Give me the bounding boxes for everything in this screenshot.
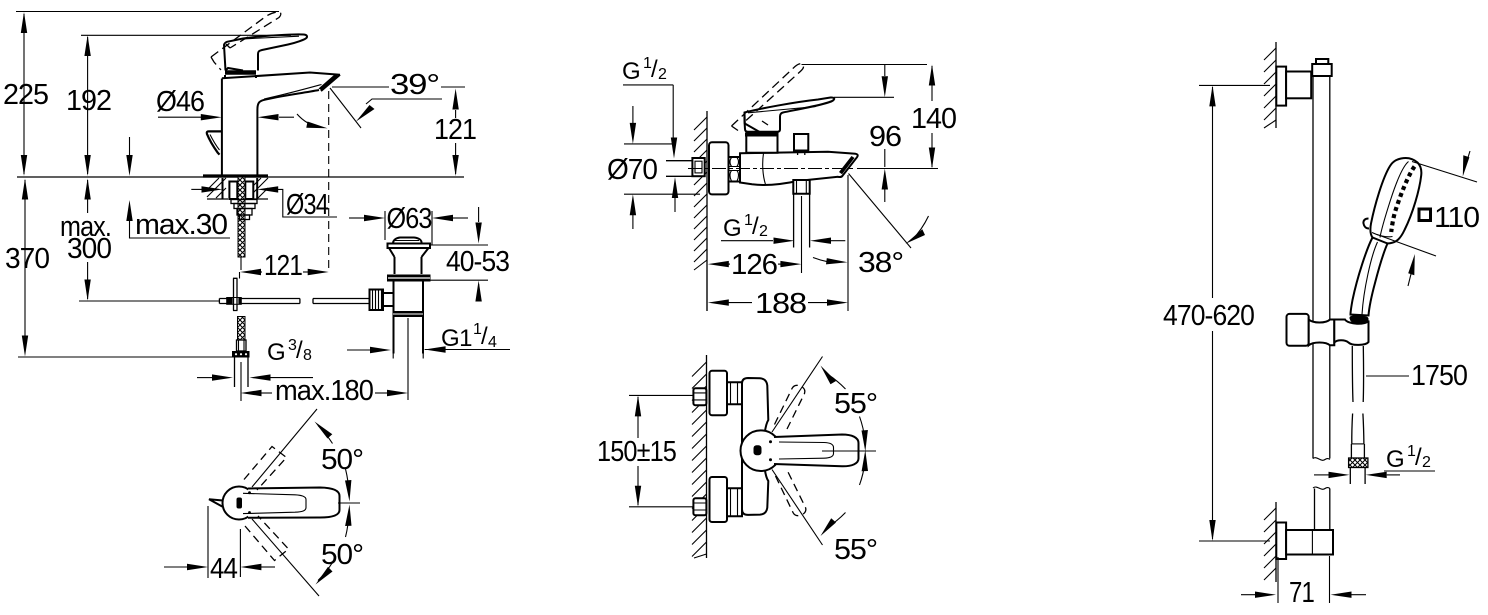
handle pivot circle front xyxy=(741,430,782,471)
handle lever middle solid xyxy=(744,97,834,131)
svg-text:G: G xyxy=(622,58,640,85)
dashed lever down front xyxy=(776,472,806,516)
svg-text:300: 300 xyxy=(67,233,111,265)
faucet spout tip slant xyxy=(321,75,340,91)
handle lever front view xyxy=(774,435,859,467)
svg-text:G: G xyxy=(1386,446,1404,473)
handle top view: dots xyxy=(248,491,251,494)
lever dots front xyxy=(769,440,772,443)
hose collar line xyxy=(1352,443,1364,445)
svg-text:G: G xyxy=(723,215,741,242)
dashed lever up front xyxy=(775,385,805,429)
svg-text:110: 110 xyxy=(1434,202,1479,234)
countertop line xyxy=(17,176,464,178)
faucet body outline xyxy=(222,79,319,177)
55 degree lower arc xyxy=(821,450,869,536)
counter hole edges xyxy=(223,178,258,199)
dimension Ø46 arrows xyxy=(158,114,294,120)
lever tip center line front xyxy=(822,450,876,452)
pipe center extension xyxy=(801,196,803,273)
svg-text:1750: 1750 xyxy=(1411,360,1467,392)
dashed raised handle middle xyxy=(732,64,804,131)
drain knob connector xyxy=(383,293,394,306)
svg-text:8: 8 xyxy=(303,347,312,364)
G3/8 thread lines xyxy=(235,358,249,388)
svg-text:/: / xyxy=(1415,444,1422,471)
mixer body side view xyxy=(740,152,858,185)
handle lever bottom left edge xyxy=(226,68,244,71)
countertop underside line segments xyxy=(207,198,268,200)
drain flange xyxy=(388,244,431,249)
G1/2 label right drawing xyxy=(1384,443,1435,473)
pop-up rod vertical xyxy=(233,278,238,310)
39 degree leader line xyxy=(332,86,465,88)
dimension 126 xyxy=(708,261,802,267)
cartridge gap thick line xyxy=(745,133,779,137)
square symbol xyxy=(1419,209,1431,221)
wall line side view xyxy=(706,111,708,311)
dimension 470-620 vertical xyxy=(1209,85,1215,541)
svg-text:2: 2 xyxy=(1422,454,1431,471)
wall line front view xyxy=(706,355,708,558)
spout aerator dark band xyxy=(319,75,339,91)
mounting washer stack xyxy=(231,200,257,220)
rail break wavy top xyxy=(1313,458,1330,461)
lever dark slot front xyxy=(754,445,762,455)
second reference line (96 top) xyxy=(834,96,894,98)
svg-text:192: 192 xyxy=(66,85,111,117)
bottom bracket body xyxy=(1286,530,1333,555)
svg-text:39°: 39° xyxy=(390,69,439,101)
drain upper body xyxy=(395,257,422,274)
top escutcheon front xyxy=(710,371,728,416)
svg-text:44: 44 xyxy=(210,553,238,585)
shower head face inner line xyxy=(1380,162,1409,238)
cartridge dome shadow thick line xyxy=(225,70,256,75)
wall hatch front view xyxy=(692,362,707,558)
svg-text:55°: 55° xyxy=(834,388,877,420)
dimension 121 lower xyxy=(240,269,329,279)
handle in holder dark seat xyxy=(1350,316,1369,324)
1750 label leader xyxy=(1366,375,1409,377)
top hex nut front xyxy=(693,388,706,405)
svg-text:50°: 50° xyxy=(321,539,363,571)
hose thread G1/2 xyxy=(1350,468,1365,485)
rail top cap xyxy=(1312,64,1332,76)
G1/2 label top xyxy=(622,55,677,159)
dimension 121 upper vertical line xyxy=(452,89,458,177)
shower head button xyxy=(1363,219,1369,229)
dimension 225 vertical line xyxy=(16,12,279,177)
shower rail upper xyxy=(1313,76,1330,459)
square 110 extension line bottom xyxy=(1377,235,1436,257)
top wall line xyxy=(1275,42,1277,128)
dimension G3/8 arrows xyxy=(197,374,313,380)
dimension G1 1/4 xyxy=(347,346,510,353)
dimension 140 xyxy=(929,65,935,169)
38 degree right arc with arrow xyxy=(906,216,929,244)
dimension Ø63 xyxy=(349,211,468,245)
G1 1/4 text xyxy=(441,321,497,352)
handle top view: lever inner detail xyxy=(243,493,306,513)
svg-text:Ø63: Ø63 xyxy=(387,203,432,235)
shower head nozzle strip xyxy=(1391,167,1414,233)
55 degree upper arc xyxy=(821,366,868,452)
drain lower body tube xyxy=(394,282,424,354)
shower head body xyxy=(1370,158,1421,243)
cartridge dome sides xyxy=(225,75,256,78)
svg-text:/: / xyxy=(651,56,658,83)
50 degree upper diagonal line xyxy=(252,409,317,487)
50 degree lower diagonal line xyxy=(252,519,319,596)
dimension 150±15 reference lines xyxy=(629,395,699,506)
50 degree lower arc with arrows xyxy=(316,505,352,585)
G3/8 text xyxy=(267,337,312,366)
rail break wavy bottom xyxy=(1313,487,1330,489)
MIDDLE DRAWING xyxy=(597,55,956,566)
square 110 extension line top xyxy=(1412,162,1477,183)
wall escutcheon xyxy=(709,142,729,194)
lever inner contour front xyxy=(779,442,834,459)
spout aerator dark band middle xyxy=(839,156,855,174)
bottom bracket flange xyxy=(1276,523,1286,560)
bottom union nut front xyxy=(727,488,742,516)
handle back edge middle xyxy=(745,113,761,133)
dimension 71 xyxy=(1241,556,1366,603)
39 degree angle arc with arrow xyxy=(297,114,328,128)
hose lower segment xyxy=(1351,444,1364,458)
handle top view: dashed lever up xyxy=(244,447,287,491)
shower handle xyxy=(1351,238,1388,316)
dimension Ø34 arrows xyxy=(191,186,337,217)
svg-text:/: / xyxy=(752,213,759,240)
mounting spacer blocks xyxy=(229,182,237,200)
hose nut dark xyxy=(232,351,250,358)
dashed raised handle xyxy=(211,12,281,70)
hose nut dimension arrows xyxy=(1314,472,1400,478)
handle top view: dark slot xyxy=(237,498,243,509)
faucet base plate thick segment xyxy=(203,174,268,177)
bracket inner divider xyxy=(1311,530,1313,555)
svg-text:2: 2 xyxy=(759,223,768,240)
threaded shank cross-hatched xyxy=(238,177,245,257)
svg-text:71: 71 xyxy=(1289,577,1314,609)
bottom hex nut front xyxy=(693,498,706,515)
38 degree spray line xyxy=(849,174,912,249)
max.30 upper pointer arrow xyxy=(126,137,132,176)
glide holder left knob xyxy=(1287,314,1309,346)
svg-text:121: 121 xyxy=(264,250,302,282)
handle top view: lever xyxy=(248,488,340,518)
handle lever solid xyxy=(224,34,307,70)
G1/2 lower arrow xyxy=(672,177,678,212)
square 110 top arrow xyxy=(1463,151,1470,177)
svg-text:Ø70: Ø70 xyxy=(607,154,657,186)
top wall hatch xyxy=(1264,48,1276,128)
drop pipe collar xyxy=(793,180,809,194)
handle bottom dark cap xyxy=(1350,315,1369,322)
dimension max.180 xyxy=(241,390,409,396)
470-620 bottom reference line xyxy=(1199,540,1270,542)
svg-text:Ø46: Ø46 xyxy=(156,86,204,118)
handle top view: left tab xyxy=(209,499,223,506)
dimension Ø70 arrows xyxy=(624,106,700,229)
svg-text:max.180: max.180 xyxy=(275,375,373,407)
50 degree upper arc with arrows xyxy=(315,422,352,502)
svg-text:2: 2 xyxy=(658,66,667,83)
38 degree vertical extension at spout tip xyxy=(847,175,849,311)
braided hose lower xyxy=(238,317,246,341)
max.30 lower pointer and label bracket xyxy=(126,200,230,238)
drain knurled knob xyxy=(370,290,384,311)
countertop hatch right xyxy=(249,178,268,198)
pop-up rod reference line xyxy=(79,300,220,302)
hose break xyxy=(1352,414,1364,444)
39 degree bent arrow leader xyxy=(356,99,442,122)
glide holder middle xyxy=(1309,320,1335,346)
supply pipe stub xyxy=(666,161,694,177)
hose upper segment xyxy=(1352,346,1363,402)
55 degree lower diagonal xyxy=(772,470,823,546)
handle lever inner line xyxy=(245,36,299,39)
39 degree spray line xyxy=(330,88,361,128)
svg-text:470-620: 470-620 xyxy=(1163,300,1254,332)
dimension 44 xyxy=(164,506,275,578)
bottom wall hatch xyxy=(1264,508,1276,580)
bottom wall line xyxy=(1275,502,1277,582)
svg-text:38°: 38° xyxy=(858,247,903,279)
spout outlet reference line xyxy=(857,168,938,170)
square 110 bottom arrow xyxy=(1408,254,1415,286)
svg-text:G1: G1 xyxy=(441,325,472,352)
470-620 top reference line xyxy=(1199,84,1270,86)
dimension max.300 vertical line xyxy=(84,179,90,301)
glide holder right part xyxy=(1334,320,1368,345)
hose end fitting xyxy=(237,340,247,351)
diverter knob xyxy=(794,134,808,151)
RIGHT DRAWING xyxy=(1163,42,1479,609)
aerator axis dashed line xyxy=(328,91,330,270)
hose center extension line xyxy=(240,362,242,401)
top bracket flange xyxy=(1276,67,1286,106)
svg-text:188: 188 xyxy=(755,288,806,320)
svg-text:225: 225 xyxy=(3,79,48,111)
countertop hatch left xyxy=(207,178,226,198)
braided hose upper (shank continuation) xyxy=(238,256,245,258)
pipe center dash-dot line xyxy=(688,168,856,170)
drain bottom ring dark xyxy=(393,311,424,317)
body-spout seam xyxy=(763,153,766,184)
hose knurled nut xyxy=(1349,458,1368,468)
drain neck taper xyxy=(389,248,429,257)
dimension 370 vertical line xyxy=(18,179,232,358)
cartridge housing xyxy=(746,136,777,153)
shower handle inner line xyxy=(1362,242,1378,315)
drain gasket dark xyxy=(387,275,431,282)
svg-text:/: / xyxy=(296,337,303,364)
mixer body front view xyxy=(742,378,768,515)
bottom escutcheon front xyxy=(710,477,728,522)
spout inner line xyxy=(264,85,322,100)
drain center extension line xyxy=(407,318,409,400)
svg-text:150±15: 150±15 xyxy=(597,436,676,468)
square wall fitting xyxy=(692,158,704,176)
center line at lever tip xyxy=(338,502,360,504)
top bracket arm xyxy=(1286,72,1311,99)
handle hook left xyxy=(207,131,222,154)
svg-text:50°: 50° xyxy=(321,444,363,476)
shower rail lower stub xyxy=(1315,489,1330,531)
faucet spout top edge xyxy=(222,73,340,79)
38 degree left arc xyxy=(813,258,848,265)
LEFT DRAWING xyxy=(3,12,510,597)
svg-text:40-53: 40-53 xyxy=(446,246,509,278)
G1/2 label bottom middle xyxy=(721,212,845,244)
svg-text:126: 126 xyxy=(731,249,777,281)
dimension 40-53 xyxy=(427,207,488,302)
pop-up rod horizontal xyxy=(219,299,368,304)
svg-text:96: 96 xyxy=(869,121,901,153)
handle top view: pivot circle xyxy=(223,487,256,520)
svg-text:G: G xyxy=(267,339,285,366)
svg-text:/: / xyxy=(481,323,488,350)
wall extension below xyxy=(706,270,708,311)
dimension 96 xyxy=(882,65,888,203)
pop-up rod junction block xyxy=(226,297,242,305)
shower head joint line xyxy=(1372,233,1393,237)
svg-text:370: 370 xyxy=(5,243,49,275)
dimension 192 vertical line xyxy=(81,35,291,176)
55 degree upper diagonal xyxy=(772,357,823,433)
dimension 150±15 vertical xyxy=(635,395,641,506)
svg-text:121: 121 xyxy=(434,114,476,146)
top union nut front xyxy=(727,382,742,404)
drop pipe xyxy=(794,194,810,248)
svg-text:max.30: max.30 xyxy=(135,209,227,241)
svg-text:140: 140 xyxy=(911,103,956,135)
svg-text:Ø34: Ø34 xyxy=(286,189,329,221)
svg-text:4: 4 xyxy=(488,334,497,351)
svg-text:55°: 55° xyxy=(834,534,877,566)
top reference line middle xyxy=(802,64,928,66)
handle inner line middle xyxy=(748,107,816,113)
union nut xyxy=(729,157,741,182)
drain pop-up valve: top plug xyxy=(393,238,422,244)
wall hatch side view xyxy=(694,117,707,270)
handle top view: dashed lever down xyxy=(245,516,289,561)
dimension 188 xyxy=(708,299,848,305)
